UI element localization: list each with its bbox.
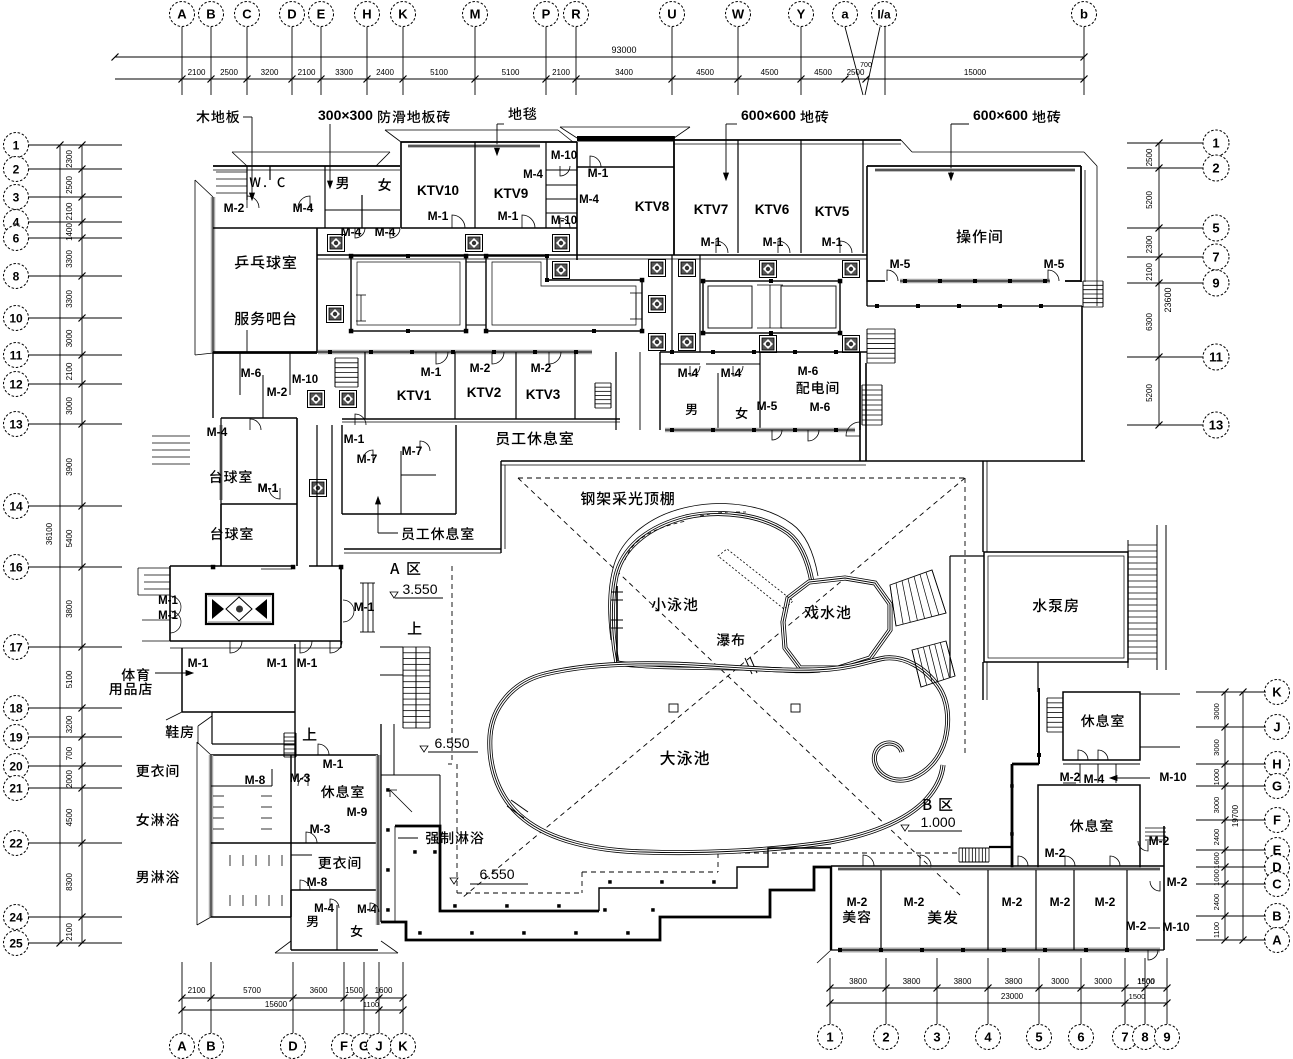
small rooms M-10/M-4 column at x560 — [545, 142, 547, 228]
svg-text:1100: 1100 — [1212, 922, 1221, 938]
label A区 and level 3.550 — [390, 562, 420, 575]
svg-text:3000: 3000 — [1094, 977, 1112, 986]
svg-text:2100: 2100 — [1145, 263, 1154, 281]
svg-text:1500: 1500 — [1138, 977, 1155, 986]
svg-text:2100: 2100 — [65, 202, 74, 220]
svg-text:M-4: M-4 — [375, 225, 396, 239]
svg-text:3000: 3000 — [65, 397, 74, 415]
svg-text:M-2: M-2 — [224, 201, 245, 215]
svg-text:M-1: M-1 — [158, 595, 178, 607]
svg-text:3: 3 — [933, 1030, 940, 1045]
svg-text:1000: 1000 — [1212, 869, 1221, 886]
svg-text:M-4: M-4 — [523, 169, 543, 181]
svg-text:25: 25 — [9, 936, 23, 950]
svg-text:M-1: M-1 — [323, 757, 344, 771]
svg-text:3800: 3800 — [1005, 977, 1023, 986]
svg-text:KTV1: KTV1 — [397, 388, 432, 403]
label 戏水池 — [804, 605, 850, 619]
wall south of operation room with M-5 doors — [900, 279, 1050, 284]
pool hall north-west boundary wall — [344, 548, 501, 550]
dotted slide rectangle — [718, 549, 793, 609]
waterfall wall strip between pools — [617, 663, 820, 671]
room 男 toilet top strip — [336, 177, 348, 189]
svg-text:R: R — [571, 7, 581, 22]
pool 小泳池 (small pool) edge — [612, 514, 812, 663]
svg-text:D: D — [287, 7, 296, 22]
wall east of table-tennis room — [316, 228, 318, 353]
room 休息室 rest room bottom-left — [321, 785, 364, 798]
shower block top wall — [211, 754, 378, 756]
svg-text:2400: 2400 — [1212, 894, 1221, 911]
svg-text:2100: 2100 — [188, 986, 206, 995]
svg-text:3400: 3400 — [615, 68, 633, 77]
svg-text:M-1: M-1 — [428, 209, 449, 223]
canopy above W.C block — [232, 151, 390, 153]
svg-text:5200: 5200 — [1145, 384, 1154, 402]
svg-text:P: P — [542, 7, 551, 22]
svg-text:1.000: 1.000 — [920, 814, 955, 830]
corridor and stair 上 lower — [303, 728, 317, 741]
canopy corner beauty strip — [817, 950, 831, 963]
svg-text:2: 2 — [13, 162, 20, 176]
skylight dashed boundary — [518, 477, 965, 479]
right lower dimension lines — [1224, 692, 1226, 940]
courtyard C1 — [351, 256, 466, 331]
svg-text:2500: 2500 — [847, 68, 865, 77]
svg-text:5400: 5400 — [65, 529, 74, 547]
svg-text:1400: 1400 — [65, 223, 74, 241]
svg-text:M-7: M-7 — [357, 452, 378, 466]
room 水泵房 (pump room) — [984, 552, 1128, 662]
label 瀑布 waterfall — [717, 633, 745, 646]
svg-text:1600: 1600 — [375, 986, 393, 995]
svg-text:3600: 3600 — [310, 986, 328, 995]
svg-text:2100: 2100 — [65, 362, 74, 380]
svg-text:M-2: M-2 — [847, 895, 868, 909]
walkway between courtyards — [466, 261, 486, 263]
svg-text:93000: 93000 — [611, 45, 636, 55]
small stairs at court north-west — [866, 329, 868, 363]
svg-text:M-8: M-8 — [245, 773, 266, 787]
svg-text:M-7: M-7 — [402, 444, 423, 458]
svg-text:3300: 3300 — [335, 68, 353, 77]
room 女 toilet top strip — [378, 178, 391, 191]
svg-text:3000: 3000 — [1051, 977, 1069, 986]
svg-text:M-5: M-5 — [757, 399, 778, 413]
svg-text:13: 13 — [9, 417, 23, 431]
wall south of second strip right — [665, 428, 855, 433]
label 强制淋浴 forced shower with leader — [426, 831, 484, 844]
svg-text:M-1: M-1 — [498, 209, 519, 223]
svg-text:18: 18 — [9, 701, 23, 715]
label 钢架采光顶棚 skylight — [581, 491, 674, 505]
svg-text:Y: Y — [797, 7, 806, 22]
svg-text:G: G — [1272, 779, 1282, 794]
stairs west of lounge no.1 — [1046, 698, 1048, 732]
room 鞋房 (shoe room) — [166, 725, 193, 738]
walkway line south of operation room — [866, 282, 868, 306]
wall south of KTV10/9 — [401, 227, 577, 229]
svg-text:1: 1 — [826, 1030, 833, 1045]
entry porch west — [138, 567, 170, 569]
svg-text:8: 8 — [13, 269, 20, 283]
svg-text:600×600: 600×600 — [741, 107, 796, 123]
svg-text:J: J — [375, 1039, 382, 1054]
room 休息室 east no.1 — [1063, 692, 1140, 760]
svg-text:KTV9: KTV9 — [494, 186, 529, 201]
svg-text:1000: 1000 — [1212, 769, 1221, 786]
store west wall — [181, 648, 183, 712]
svg-text:M-2: M-2 — [267, 385, 288, 399]
svg-text:B: B — [206, 1039, 215, 1054]
svg-text:15000: 15000 — [964, 68, 987, 77]
wall south of outdoor court — [866, 460, 1085, 462]
courtyard C3 twin — [703, 281, 840, 333]
svg-text:KTV6: KTV6 — [755, 202, 790, 217]
vestibule between east lounges — [1063, 763, 1140, 765]
svg-text:2300: 2300 — [65, 150, 74, 168]
svg-text:13: 13 — [1209, 418, 1223, 433]
rooms KTV7 KTV6 KTV5 top walls — [674, 139, 901, 141]
label 员工休息室 staff lounge (lower) with leader — [402, 527, 474, 540]
svg-text:3200: 3200 — [65, 715, 74, 733]
small stairs outside operation room SE — [1082, 281, 1084, 307]
top dimension lines — [115, 56, 1084, 58]
room 美容 (beauty) — [880, 870, 882, 950]
svg-text:2300: 2300 — [1145, 235, 1154, 253]
pool 大泳池 (big pool) edge north+east with spiral — [545, 658, 948, 780]
svg-text:3800: 3800 — [65, 600, 74, 618]
svg-text:5: 5 — [1212, 221, 1219, 236]
canopy south outline with corner — [275, 941, 291, 953]
big pool steps ticks — [507, 806, 524, 818]
svg-text:3: 3 — [13, 190, 20, 204]
svg-text:H: H — [1272, 757, 1281, 772]
wall south of KTV7/6/5 — [317, 254, 867, 256]
svg-text:5100: 5100 — [430, 68, 448, 77]
svg-text:M-6: M-6 — [810, 400, 831, 414]
svg-text:M-10: M-10 — [551, 150, 577, 162]
pool deck thick edge west/south inner — [395, 826, 599, 911]
pool 大泳池 (big pool) edge west+south — [490, 674, 943, 853]
label 大泳池 — [660, 750, 709, 765]
svg-text:M-4: M-4 — [293, 201, 314, 215]
waterfall tick marks — [745, 658, 752, 674]
svg-text:M: M — [470, 7, 481, 22]
left dimension lines — [59, 145, 61, 943]
svg-text:M-5: M-5 — [890, 257, 911, 271]
svg-text:A: A — [177, 1039, 187, 1054]
wall south of KTV1-3 — [342, 418, 620, 420]
room 乒乓球室 (table tennis) — [235, 255, 296, 269]
svg-text:M-1: M-1 — [188, 656, 209, 670]
rooms 男女 toilets bottom — [291, 889, 378, 891]
svg-text:KTV5: KTV5 — [815, 204, 850, 219]
svg-text:M-3: M-3 — [290, 771, 311, 785]
svg-text:2500: 2500 — [220, 68, 238, 77]
svg-text:F: F — [340, 1039, 348, 1054]
svg-text:3000: 3000 — [1212, 703, 1221, 720]
svg-text:M-4: M-4 — [721, 366, 742, 380]
svg-text:A: A — [1272, 933, 1282, 948]
svg-text:M-10: M-10 — [292, 374, 318, 386]
svg-text:3800: 3800 — [849, 977, 867, 986]
svg-text:1100: 1100 — [363, 1000, 379, 1009]
svg-text:M-1: M-1 — [701, 235, 722, 249]
svg-text:KTV10: KTV10 — [417, 183, 459, 198]
svg-text:2: 2 — [1212, 161, 1219, 176]
grid bubbles bottom right (numbers 1-9) — [818, 1025, 843, 1050]
small pool lane ladder — [611, 591, 623, 593]
shower block south wall — [211, 916, 291, 918]
grid bubbles top row (letters A-b) — [170, 2, 195, 27]
stairs fan east of play pool no.2 — [912, 641, 955, 687]
svg-text:M-5: M-5 — [1044, 257, 1065, 271]
corridor south wall with columns — [318, 350, 592, 355]
room 女淋浴 (women shower) partitions — [136, 764, 178, 777]
svg-text:2400: 2400 — [376, 68, 394, 77]
svg-text:C: C — [1272, 877, 1282, 892]
svg-text:3300: 3300 — [65, 290, 74, 308]
svg-text:10: 10 — [9, 311, 23, 325]
room 服务吧台 (service bar) — [235, 311, 296, 325]
stairs fan east of play pool no.1 — [890, 570, 946, 626]
svg-text:1500: 1500 — [1129, 992, 1146, 1001]
svg-text:14: 14 — [9, 499, 23, 513]
lobby interior wall x341 — [340, 566, 342, 641]
room 台球室 no.2 — [220, 504, 222, 566]
door arcs group — [247, 196, 259, 208]
svg-text:U: U — [667, 7, 676, 22]
skylight diagonal cross — [518, 478, 960, 895]
svg-text:J: J — [1273, 720, 1280, 735]
svg-text:21: 21 — [9, 781, 23, 795]
svg-text:4500: 4500 — [814, 68, 832, 77]
svg-text:2500: 2500 — [1145, 148, 1154, 166]
svg-text:5: 5 — [1035, 1030, 1042, 1045]
svg-text:1600: 1600 — [1212, 852, 1221, 869]
svg-text:16: 16 — [9, 560, 23, 574]
room 美发 (hairdressing) — [987, 870, 989, 950]
wall south of W.C and toilets — [213, 227, 400, 229]
lobby south wall with doors M-1 — [170, 640, 341, 642]
room 台球室 no.1 — [221, 417, 297, 419]
svg-text:2100: 2100 — [552, 68, 570, 77]
svg-text:7: 7 — [1121, 1030, 1128, 1045]
svg-text:5200: 5200 — [1145, 191, 1154, 209]
svg-text:19: 19 — [9, 730, 23, 744]
room KTV6 — [800, 140, 802, 253]
svg-text:15600: 15600 — [265, 1000, 288, 1009]
wall segments around east lounges — [1012, 867, 1038, 869]
svg-text:M-4: M-4 — [357, 904, 377, 916]
svg-text:M-2: M-2 — [1002, 895, 1023, 909]
svg-text:12: 12 — [9, 377, 23, 391]
canopy outline shower block — [197, 742, 211, 755]
pool deck east thick edge — [1011, 764, 1014, 868]
svg-text:M-10: M-10 — [1162, 920, 1190, 934]
lobby east walls — [340, 566, 342, 648]
svg-text:4500: 4500 — [761, 68, 779, 77]
svg-text:M-4: M-4 — [579, 194, 599, 206]
svg-text:3.550: 3.550 — [402, 581, 437, 597]
svg-text:6.550: 6.550 — [479, 866, 514, 882]
small stairs right of KTV3 — [594, 383, 596, 408]
wall between women/men showers — [211, 842, 378, 844]
courtyard C2 L-shape — [486, 256, 642, 331]
grid bubbles right upper (numbers 1-13) — [1203, 130, 1229, 156]
svg-text:M-1: M-1 — [344, 432, 365, 446]
pool 戏水池 (play pool) octagon edge — [783, 578, 890, 668]
svg-text:11: 11 — [10, 348, 23, 362]
room 操作间 (operation room) — [867, 165, 1081, 167]
svg-text:M-2: M-2 — [1095, 895, 1116, 909]
svg-text:M-10: M-10 — [551, 215, 577, 227]
outdoor court east wall — [1081, 306, 1083, 461]
wall west exterior of table-tennis room — [211, 197, 216, 353]
svg-text:K: K — [1272, 685, 1282, 700]
men shower stalls — [229, 855, 231, 866]
room 体育用品店 (sports goods store) — [122, 668, 150, 681]
svg-text:F: F — [1273, 813, 1281, 828]
svg-text:E: E — [317, 7, 326, 22]
corridor west of staff room — [316, 425, 318, 566]
svg-text:2100: 2100 — [298, 68, 316, 77]
east wall of pool hall — [949, 556, 951, 677]
bench in courtyard C2 — [630, 292, 642, 294]
svg-text:M-2: M-2 — [1050, 895, 1071, 909]
svg-text:3000: 3000 — [1212, 797, 1221, 814]
svg-text:23000: 23000 — [1001, 992, 1024, 1001]
svg-text:4500: 4500 — [65, 808, 74, 826]
svg-text:M-1: M-1 — [354, 600, 375, 614]
svg-text:4: 4 — [984, 1030, 992, 1045]
svg-text:2000: 2000 — [65, 770, 74, 788]
svg-text:M-1: M-1 — [258, 481, 279, 495]
room KTV8 terrace band — [577, 136, 674, 142]
svg-text:3300: 3300 — [65, 250, 74, 268]
svg-text:3000: 3000 — [65, 329, 74, 347]
grid bubbles left column (numbers 1-25) — [4, 133, 29, 158]
svg-text:5100: 5100 — [65, 670, 74, 688]
svg-text:M-2: M-2 — [531, 361, 552, 375]
svg-text:B: B — [206, 7, 215, 22]
svg-text:KTV7: KTV7 — [694, 202, 729, 217]
svg-text:2400: 2400 — [1212, 829, 1221, 846]
stair right of lounge no.2 — [1145, 827, 1166, 829]
svg-text:3200: 3200 — [261, 68, 279, 77]
svg-text:2500: 2500 — [65, 176, 74, 194]
svg-text:W: W — [732, 7, 745, 22]
svg-text:5100: 5100 — [502, 68, 520, 77]
room 更衣间 changing (lower) — [318, 856, 360, 869]
lobby west wall with entry doors — [169, 566, 171, 641]
svg-text:4500: 4500 — [696, 68, 714, 77]
svg-text:11: 11 — [1209, 350, 1223, 365]
staircase 上 middle (lobby east) — [408, 622, 422, 635]
zone A dashed boundary — [451, 566, 453, 764]
svg-text:3800: 3800 — [903, 977, 921, 986]
label B区 and level 1.000 — [924, 798, 953, 811]
svg-text:KTV8: KTV8 — [635, 199, 670, 214]
label 员工休息室 staff lounge (upper) — [496, 431, 573, 445]
annotation wood floor label 木地板 — [196, 110, 239, 123]
skimmer boxes in big pool — [669, 704, 678, 712]
svg-text:I/a: I/a — [877, 7, 891, 21]
svg-text:M-2: M-2 — [1126, 919, 1147, 933]
svg-text:M-1: M-1 — [588, 166, 609, 180]
deck stairs at dashed end — [959, 847, 989, 849]
svg-text:M-10: M-10 — [1159, 770, 1187, 784]
rooms 男女配电间 right — [659, 352, 661, 430]
svg-text:5700: 5700 — [243, 986, 261, 995]
svg-text:H: H — [362, 7, 371, 22]
svg-text:M-2: M-2 — [1167, 875, 1188, 889]
svg-text:D: D — [288, 1039, 297, 1054]
svg-text:23600: 23600 — [1163, 287, 1173, 312]
svg-text:K: K — [398, 7, 408, 22]
svg-text:1: 1 — [1212, 136, 1219, 151]
svg-text:A: A — [177, 7, 187, 22]
svg-text:M-6: M-6 — [798, 364, 819, 378]
room 配电间 (power distribution) — [796, 381, 838, 394]
svg-text:7: 7 — [1212, 250, 1219, 265]
svg-text:M-4: M-4 — [341, 225, 362, 239]
svg-text:M-4: M-4 — [1084, 772, 1105, 786]
svg-text:B: B — [1272, 909, 1281, 924]
svg-text:K: K — [398, 1039, 408, 1054]
svg-text:M-2: M-2 — [470, 361, 491, 375]
svg-text:KTV2: KTV2 — [467, 385, 502, 400]
svg-text:M-4: M-4 — [314, 903, 334, 915]
decorative carpet — [206, 594, 273, 624]
svg-text:19700: 19700 — [1231, 804, 1240, 827]
lobby north wall — [170, 565, 293, 567]
shower block west wall — [209, 755, 214, 917]
svg-text:9: 9 — [1212, 276, 1219, 291]
svg-text:1500: 1500 — [345, 986, 363, 995]
svg-text:9: 9 — [1163, 1030, 1170, 1045]
svg-text:6.550: 6.550 — [434, 735, 469, 751]
svg-text:8: 8 — [1141, 1030, 1148, 1045]
svg-text:2100: 2100 — [188, 68, 206, 77]
room KTV8 — [577, 166, 674, 168]
room KTV3 — [574, 352, 576, 419]
corridor medallions row — [328, 235, 345, 252]
svg-text:M-4: M-4 — [207, 425, 228, 439]
svg-text:M-1: M-1 — [267, 656, 288, 670]
svg-text:8300: 8300 — [65, 873, 74, 891]
svg-text:KTV3: KTV3 — [526, 387, 561, 402]
svg-text:C: C — [242, 7, 252, 22]
svg-text:M-1: M-1 — [421, 365, 442, 379]
room KTV1 — [364, 352, 366, 419]
wall south of table-tennis block — [213, 352, 317, 354]
room KTV10 — [401, 141, 577, 143]
bottom left dimension lines — [182, 997, 403, 999]
entry steps west of W.C — [216, 171, 247, 173]
svg-text:700: 700 — [860, 62, 872, 69]
svg-text:M-1: M-1 — [822, 235, 843, 249]
room 休息室 east no.2 — [1038, 785, 1140, 868]
svg-text:36100: 36100 — [45, 522, 54, 545]
stairs east of pump room — [1128, 544, 1157, 546]
svg-text:700: 700 — [65, 746, 74, 760]
svg-text:1: 1 — [13, 138, 20, 152]
svg-text:a: a — [841, 7, 849, 22]
svg-text:24: 24 — [9, 910, 23, 924]
svg-text:22: 22 — [9, 836, 23, 850]
